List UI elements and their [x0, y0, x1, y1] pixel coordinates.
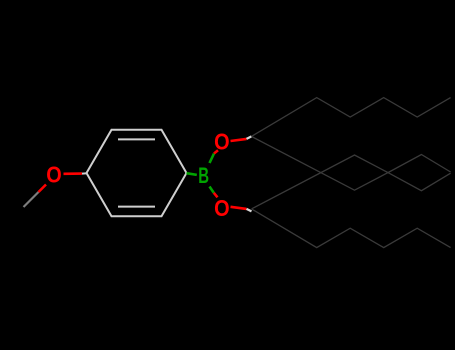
- wire Otop-C red half: [231, 139, 247, 141]
- svg-text:O: O: [214, 128, 230, 154]
- benzene ring C6H4: [87, 130, 187, 216]
- wire B-Otop red half: [214, 150, 218, 153]
- wire B-Obot red half: [214, 193, 218, 198]
- wire Obot-C white half: [247, 209, 252, 212]
- benzene inner double bond top: [118, 138, 155, 140]
- wire O-CH3 red half: [39, 185, 47, 193]
- svg-text:O: O: [46, 162, 62, 188]
- wire B-Otop green half: [210, 154, 215, 164]
- wire bottom zigzag chain: [252, 209, 451, 248]
- wire top zigzag chain: [252, 98, 451, 137]
- wire ring-B bond green: [187, 173, 197, 175]
- wire crossing chain from bottom stub: [252, 155, 451, 209]
- svg-text:O: O: [214, 195, 230, 221]
- wire Otop-C white half: [247, 136, 252, 139]
- faint remainder skeleton (faded substructure): [252, 98, 451, 248]
- benzene inner double bond bottom: [118, 206, 155, 208]
- wire crossing chain from top stub: [252, 136, 451, 190]
- wire O-ring red half: [64, 172, 83, 175]
- svg-text:B: B: [198, 163, 209, 188]
- wire Obot-C red half: [231, 207, 247, 209]
- wire B-Obot green half: [210, 187, 214, 193]
- wire O-ring white half: [82, 172, 88, 174]
- wire methyl tail C of CH3-O: [24, 192, 39, 207]
